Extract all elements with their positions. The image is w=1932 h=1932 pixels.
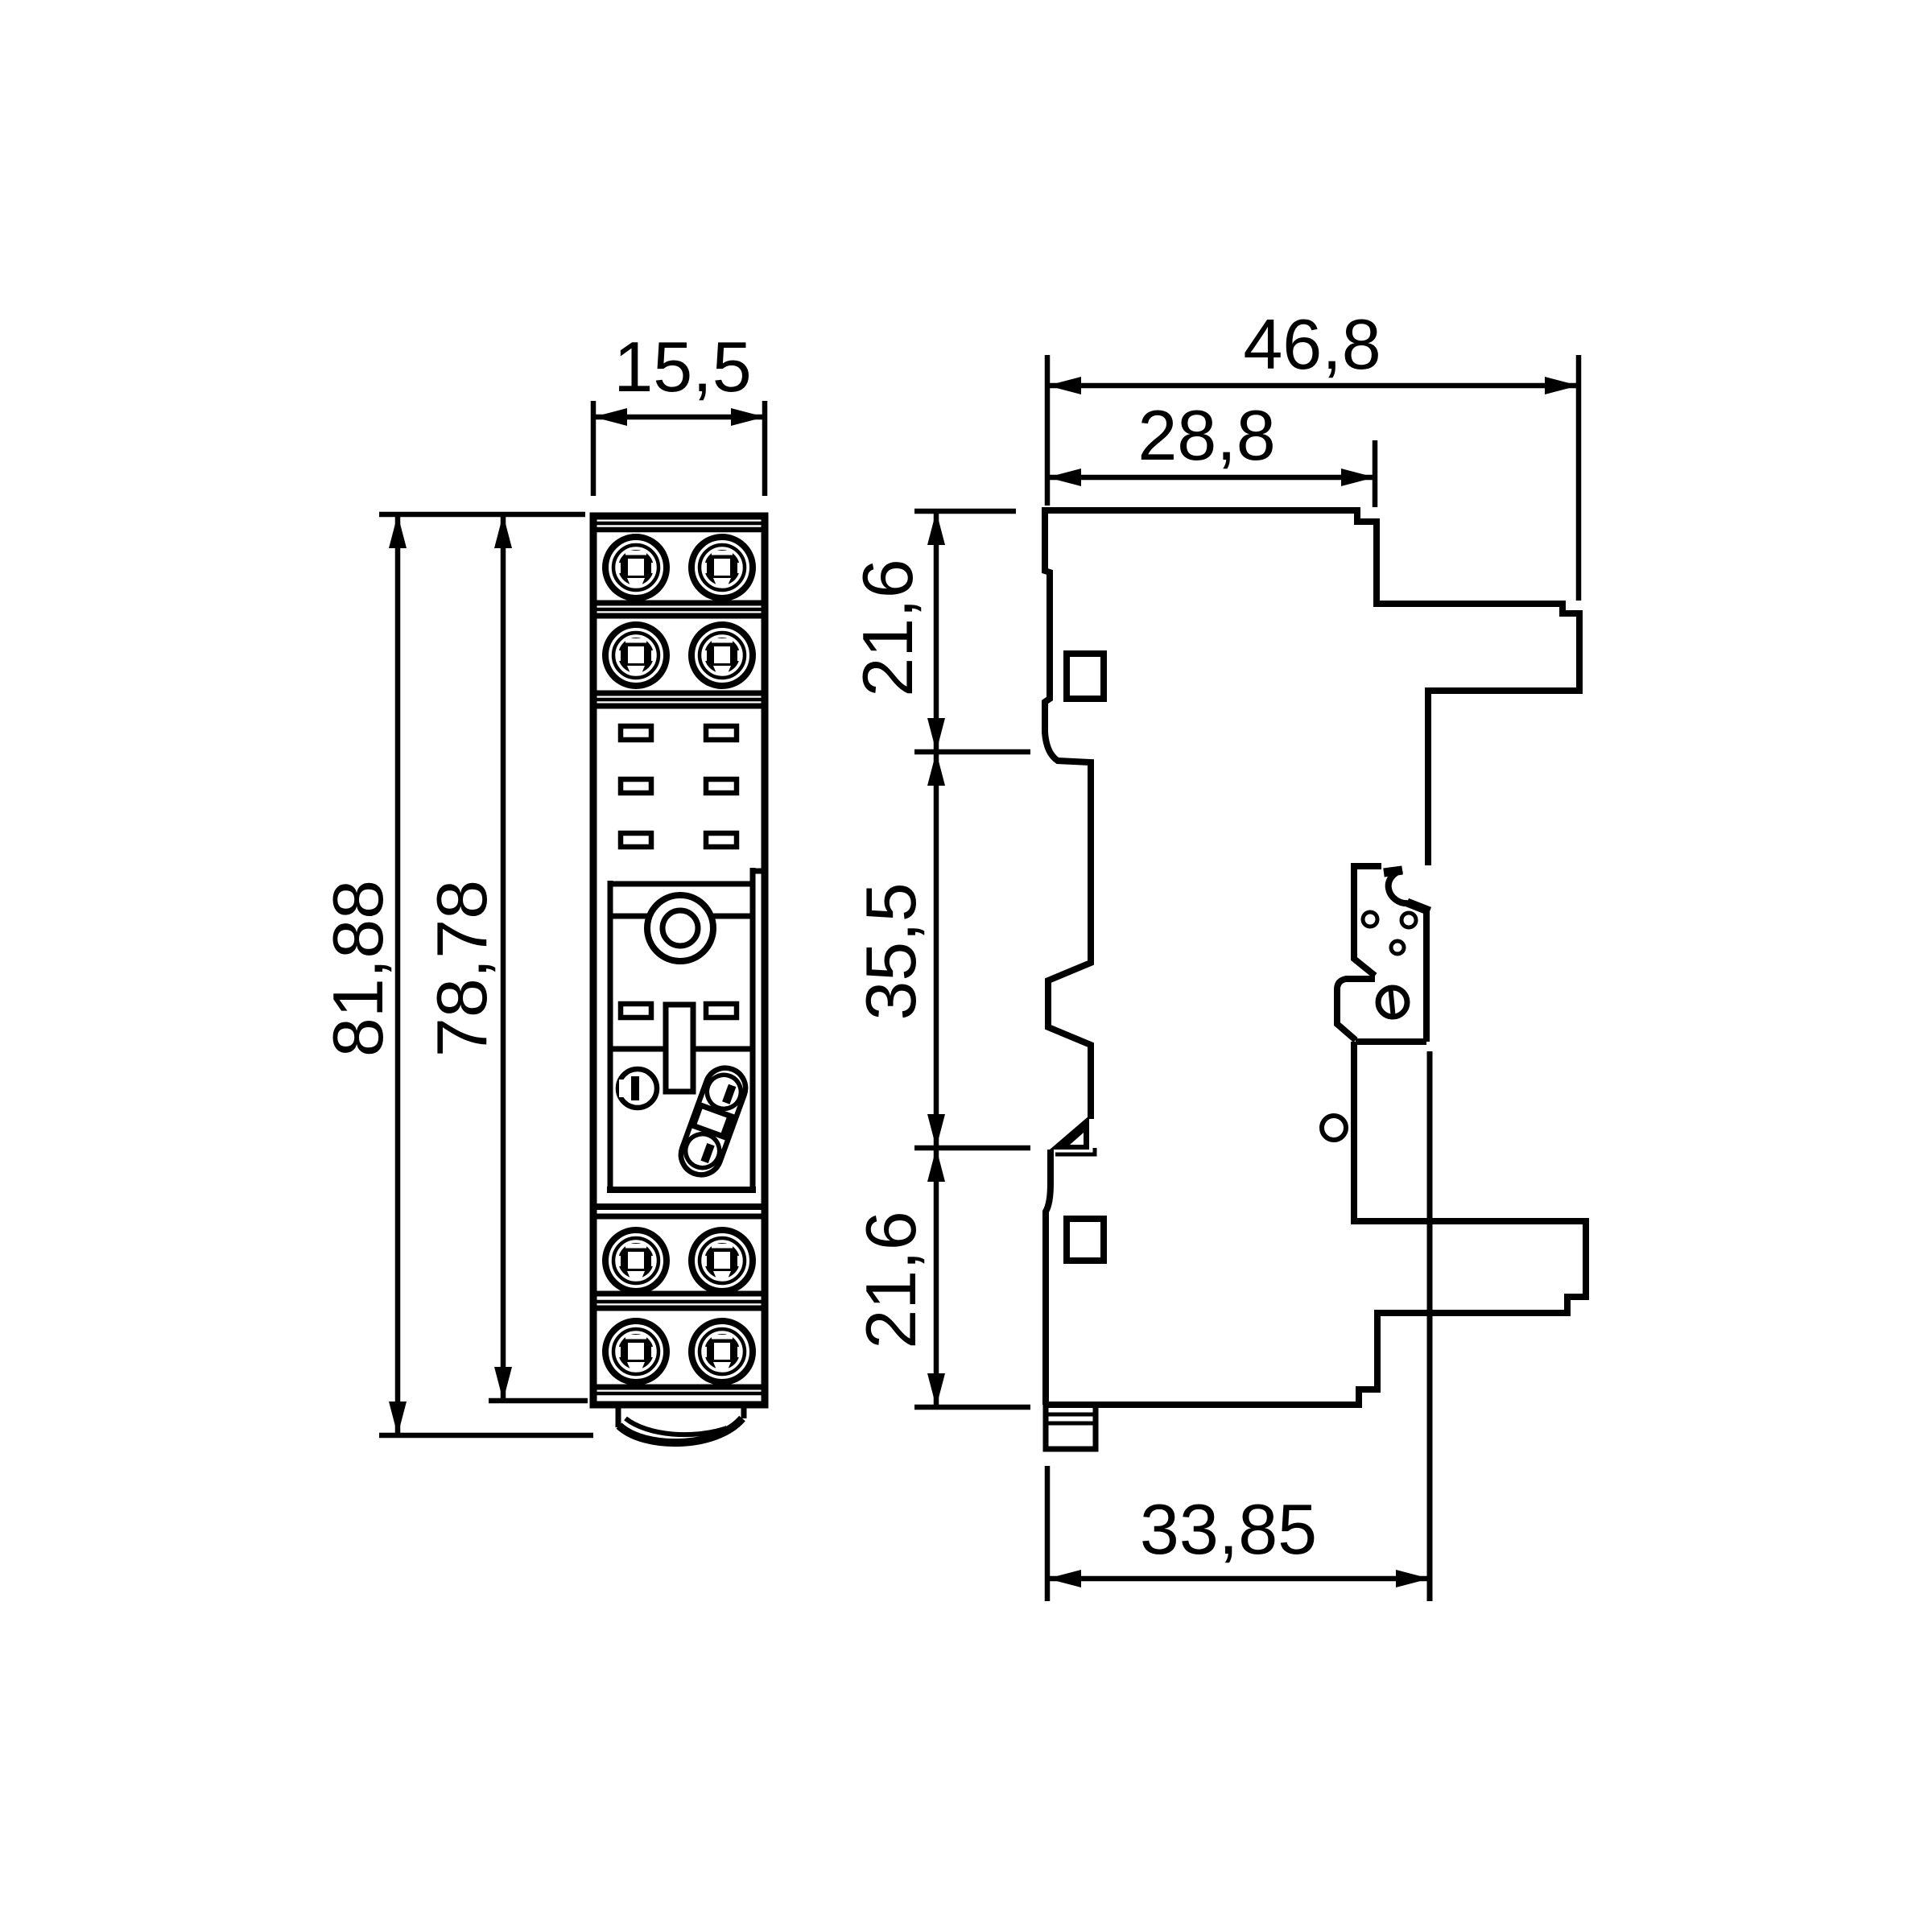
DIN rail latch pawl triangle: [1050, 1116, 1095, 1154]
side view bottom and right outline: [1046, 1042, 1586, 1405]
side view top outline: [1045, 510, 1579, 865]
dimension 46,8 line: [1047, 383, 1579, 389]
svg-text:78,78: 78,78: [422, 880, 502, 1057]
dimension 46,8 extension lines: [1047, 355, 1579, 601]
dimension 78,78 arrowheads: [494, 514, 512, 1401]
dimension 81,88 line: [395, 514, 401, 1435]
vertical chain arrowheads: [927, 511, 945, 1407]
vertical chain dimension line: [934, 511, 939, 1407]
contact slots row 3: [621, 833, 737, 847]
dimension 28,8 arrowheads: [1047, 469, 1375, 486]
svg-text:35,5: 35,5: [851, 882, 931, 1020]
dimension 46,8 arrowheads: [1047, 377, 1579, 394]
retaining clip eyelet front view: [618, 1069, 657, 1108]
contact slots row 4: [621, 1004, 737, 1018]
dimension 15,5 arrowheads: [593, 408, 765, 426]
mounting hole front view: [647, 895, 713, 961]
svg-text:28,8: 28,8: [1137, 395, 1275, 475]
side view left profile upper: [1045, 507, 1091, 1119]
screw terminal A1 top row: [605, 537, 753, 598]
inner panel frame front view: [607, 868, 765, 1193]
height dimensions extension lines: [379, 514, 593, 1435]
release lever front view: [675, 1063, 751, 1181]
side view lower square hole: [1067, 1219, 1104, 1261]
dimension 33,85 line: [1047, 1576, 1430, 1582]
vertical chain dimension extension lines: [914, 511, 1030, 1407]
side view right vertical edge: [1427, 1051, 1433, 1601]
screw terminal row 3: [605, 1230, 753, 1291]
dimension 78,78 line: [501, 514, 506, 1401]
side view left profile lower: [1046, 1150, 1051, 1405]
contact slots row 1: [621, 726, 737, 740]
svg-text:33,85: 33,85: [1140, 1489, 1317, 1569]
dimension 28,8 extension line: [1373, 440, 1378, 507]
dimension 33,85 extension line: [1045, 1466, 1051, 1601]
latch release hook: [1384, 870, 1430, 911]
side view bottom clip foot: [1046, 1405, 1096, 1449]
contact slots row 2: [621, 779, 737, 793]
svg-text:81,88: 81,88: [318, 880, 398, 1057]
dimension 33,85 arrowheads: [1047, 1570, 1430, 1587]
side view upper square hole: [1067, 654, 1104, 699]
screw terminal A2 second row: [605, 625, 753, 686]
dimension 15,5 line: [593, 415, 765, 420]
svg-text:46,8: 46,8: [1243, 304, 1381, 384]
front view body outline: [593, 516, 765, 1405]
svg-text:21,6: 21,6: [851, 1211, 931, 1348]
svg-text:21,6: 21,6: [848, 559, 927, 696]
side view small hole: [1322, 1116, 1346, 1140]
latch block screw head: [1378, 985, 1407, 1019]
dimension 15,5 extension lines: [593, 401, 765, 496]
dimension 81,88 arrowheads: [389, 514, 407, 1435]
center slot front view: [666, 1005, 693, 1092]
front view horizontal section lines: [593, 523, 765, 1393]
screw terminal row 4: [605, 1321, 753, 1382]
dimension 28,8 line: [1047, 475, 1375, 481]
svg-text:15,5: 15,5: [613, 327, 751, 407]
bottom spring clip front view: [618, 1406, 744, 1443]
latch block pin holes: [1363, 912, 1416, 954]
DIN rail latch block outline: [1337, 863, 1426, 1042]
